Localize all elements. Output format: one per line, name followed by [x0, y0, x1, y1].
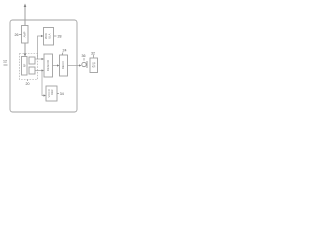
arrowhead into speaker	[79, 64, 82, 66]
label 26	[15, 33, 22, 37]
RF box 22	[22, 57, 28, 76]
svg-text:28: 28	[58, 35, 62, 39]
svg-text:DER: DER	[50, 89, 54, 95]
label 34	[57, 92, 64, 96]
antenna arrowhead up	[24, 4, 27, 8]
arrowhead B into M1	[42, 69, 45, 71]
svg-text:12: 12	[3, 60, 7, 64]
arrowhead into codec	[44, 94, 47, 96]
label 12	[3, 60, 8, 66]
svg-text:RF: RF	[22, 63, 26, 67]
svg-text:ULA: ULA	[48, 33, 52, 38]
svg-text:20: 20	[26, 82, 30, 86]
junction node	[41, 70, 43, 72]
wire box26 down to RF unit	[24, 43, 26, 54]
box 26 amplifier	[22, 26, 29, 44]
svg-text:DECO: DECO	[61, 61, 65, 69]
wire B to M1	[35, 70, 43, 72]
arrowhead into box 28	[41, 35, 44, 37]
svg-text:DEMOD: DEMOD	[46, 60, 50, 72]
svg-text:34: 34	[60, 92, 64, 96]
box 28	[44, 28, 54, 46]
arrowhead into M1 top	[42, 58, 45, 60]
svg-text:24: 24	[63, 49, 67, 53]
dashed RF section 20	[20, 54, 38, 80]
right box 32	[90, 58, 98, 73]
arrowhead into M2	[57, 64, 60, 66]
label 24	[62, 49, 67, 56]
codec box 30	[46, 86, 57, 101]
svg-text:32: 32	[91, 52, 95, 56]
M1 box baseband	[44, 54, 53, 77]
antenna lead wire	[24, 6, 26, 26]
svg-text:MOD: MOD	[44, 33, 48, 39]
svg-text:36: 36	[82, 54, 86, 58]
box B mixer	[29, 67, 35, 74]
svg-text:KR: KR	[92, 66, 96, 69]
wire M2 out to speaker	[68, 65, 80, 67]
wire A to M1	[35, 58, 43, 60]
svg-text:26: 26	[15, 33, 19, 37]
wire down to codec box 30	[42, 71, 45, 96]
M2 box decoder	[60, 55, 68, 76]
speaker circle 36	[82, 61, 87, 68]
label 28	[54, 35, 62, 39]
box A mixer	[29, 57, 35, 64]
outer device box 12	[10, 20, 77, 112]
arrowhead down into RF unit	[24, 54, 27, 57]
label 20	[26, 80, 30, 87]
svg-text:AMP: AMP	[23, 31, 27, 37]
label 32	[91, 52, 95, 58]
wire M1 to M2	[53, 65, 58, 67]
label 36	[82, 54, 86, 61]
wire branch up to box 28	[38, 36, 42, 59]
